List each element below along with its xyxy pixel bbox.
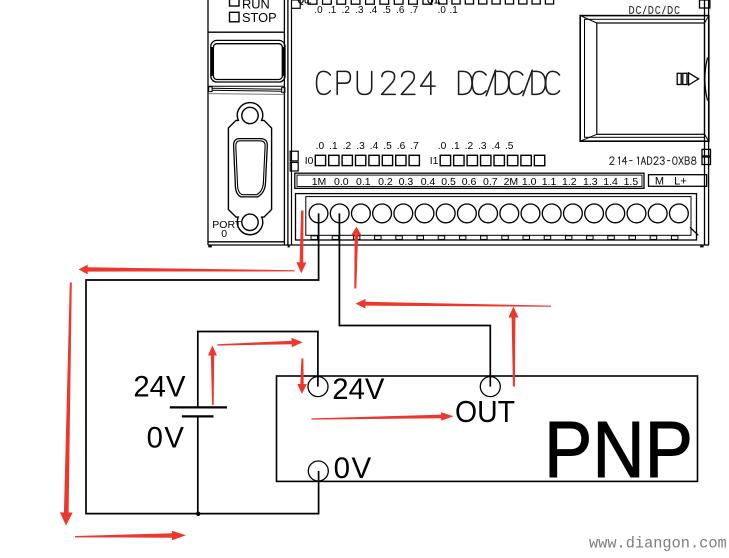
sensor OUT terminal	[480, 377, 500, 397]
STOP LED square	[230, 12, 240, 21]
I1 LED squares	[440, 155, 545, 165]
PNP sensor box	[277, 376, 698, 481]
svg-text:0.6: 0.6	[462, 176, 477, 188]
svg-text:.3: .3	[355, 5, 364, 16]
svg-text:1M: 1M	[312, 176, 327, 188]
svg-text:L+: L+	[674, 175, 687, 187]
input LED bit labels I1	[438, 141, 514, 152]
sensor 0V terminal	[308, 461, 328, 481]
svg-text:.4: .4	[370, 141, 379, 152]
svg-text:2M: 2M	[504, 176, 519, 188]
wire battery + to sensor 24V	[198, 332, 318, 408]
svg-text:24V: 24V	[332, 373, 385, 406]
flow arrow up from OUT	[509, 307, 519, 387]
sensor 24V terminal	[308, 377, 328, 397]
flow arrow up from battery +	[208, 346, 217, 406]
M L+ label box	[649, 175, 707, 187]
svg-text:.1: .1	[451, 141, 460, 152]
svg-text:.0: .0	[438, 141, 447, 152]
svg-text:.3: .3	[478, 141, 487, 152]
svg-text:.5: .5	[383, 5, 392, 16]
svg-text:.0: .0	[438, 5, 447, 16]
battery B1 positive plate	[170, 406, 227, 408]
part number 214-1AD23-0XB8	[610, 157, 696, 164]
flow arrow right above battery	[218, 338, 303, 348]
flow arrow up into input 0.0	[351, 227, 362, 289]
PLC right edge	[690, 0, 711, 247]
svg-text:1.0: 1.0	[522, 176, 537, 188]
DB9 bottom screw hole	[242, 214, 258, 230]
svg-text:.5: .5	[505, 141, 514, 152]
svg-text:0.4: 0.4	[421, 176, 436, 188]
DB9 D-sub opening inner	[236, 141, 265, 195]
svg-text:1.2: 1.2	[562, 176, 577, 188]
DC/DC/DC flap label	[630, 6, 679, 14]
terminal label strip	[295, 173, 644, 188]
M L+ labels	[655, 175, 687, 187]
flow arrow right along bottom	[75, 531, 186, 541]
output LED row group Q0 (cut off at top)	[308, 0, 432, 4]
flow arrow down into sensor 24V	[297, 359, 307, 395]
CPU 224 DC/DC/DC title	[317, 70, 560, 95]
svg-text:.2: .2	[465, 141, 474, 152]
wire battery - to 0V rail	[197, 416, 199, 513]
terminal block	[296, 194, 697, 240]
svg-text:.1: .1	[329, 141, 338, 152]
svg-text:.6: .6	[396, 5, 405, 16]
main face left edge	[290, 0, 300, 245]
flap finger notch arc	[705, 58, 708, 101]
svg-text:0.1: 0.1	[356, 176, 371, 188]
svg-text:.2: .2	[343, 141, 352, 152]
output LED row group Q1 (cut off at top)	[439, 0, 554, 4]
expansion flap	[580, 16, 709, 142]
flow arrow right to OUT label	[312, 412, 454, 421]
svg-text:.0: .0	[316, 141, 325, 152]
svg-text:0.2: 0.2	[378, 176, 393, 188]
svg-text:0V: 0V	[147, 422, 186, 455]
wire 0.0 input to OUT	[339, 213, 490, 386]
expansion port icon	[677, 73, 698, 85]
svg-text:.0: .0	[314, 5, 323, 16]
svg-text:.3: .3	[356, 141, 365, 152]
svg-text:0: 0	[221, 228, 227, 240]
flow arrow left to 0V rail	[79, 265, 295, 275]
svg-text:OUT: OUT	[455, 395, 515, 429]
DB9 top screw hole	[242, 107, 258, 123]
battery B1 negative plate	[182, 415, 214, 417]
terminal screws row	[309, 204, 688, 223]
svg-text:0V: 0V	[334, 452, 373, 485]
input LED bit labels I0	[316, 141, 419, 152]
RUN LED square	[230, 0, 240, 6]
svg-text:.6: .6	[397, 141, 406, 152]
svg-text:STOP: STOP	[242, 10, 277, 25]
svg-text:.2: .2	[342, 5, 350, 16]
svg-text:.1: .1	[449, 5, 458, 16]
mode switch door	[211, 40, 285, 82]
svg-text:0.3: 0.3	[399, 176, 414, 188]
PLC bottom edge	[208, 244, 709, 246]
svg-text:M: M	[655, 175, 664, 187]
svg-text:.4: .4	[369, 5, 378, 16]
svg-text:I1: I1	[430, 156, 439, 167]
wire 1M to 0V rail	[86, 213, 319, 513]
PLC left column body	[208, 0, 288, 245]
Q0 bit labels	[314, 5, 418, 16]
Q1 bit labels	[438, 5, 459, 16]
flow arrow down at 1M terminal	[296, 211, 306, 274]
svg-text:24V: 24V	[133, 371, 186, 404]
svg-text:.7: .7	[410, 5, 418, 16]
junction dot	[196, 512, 200, 516]
flow arrow left mid	[356, 299, 552, 309]
svg-text:.7: .7	[410, 141, 419, 152]
svg-text:1.4: 1.4	[603, 176, 618, 188]
svg-text:.4: .4	[492, 141, 501, 152]
terminal block feet ticks	[311, 236, 678, 240]
hinge slot lines	[209, 86, 285, 94]
I0 LED squares	[315, 155, 419, 165]
svg-text:0.5: 0.5	[441, 176, 456, 188]
svg-text:PNP: PNP	[544, 405, 693, 494]
svg-text:0.0: 0.0	[334, 176, 349, 188]
svg-text:1.3: 1.3	[583, 176, 598, 188]
svg-text:www.diangon.com: www.diangon.com	[589, 535, 727, 553]
svg-text:Q0.: Q0.	[298, 0, 312, 5]
DB9 connector plate	[228, 103, 271, 235]
svg-text:I0: I0	[305, 156, 314, 167]
svg-text:.1: .1	[328, 5, 337, 16]
terminal labels 1M..1.5	[312, 176, 639, 188]
svg-text:1.1: 1.1	[542, 176, 557, 188]
svg-text:0.7: 0.7	[483, 176, 498, 188]
DB9 D-sub opening outer	[234, 139, 268, 197]
svg-text:.5: .5	[383, 141, 392, 152]
svg-text:1.5: 1.5	[624, 176, 639, 188]
flow arrow down left rail	[60, 283, 73, 526]
